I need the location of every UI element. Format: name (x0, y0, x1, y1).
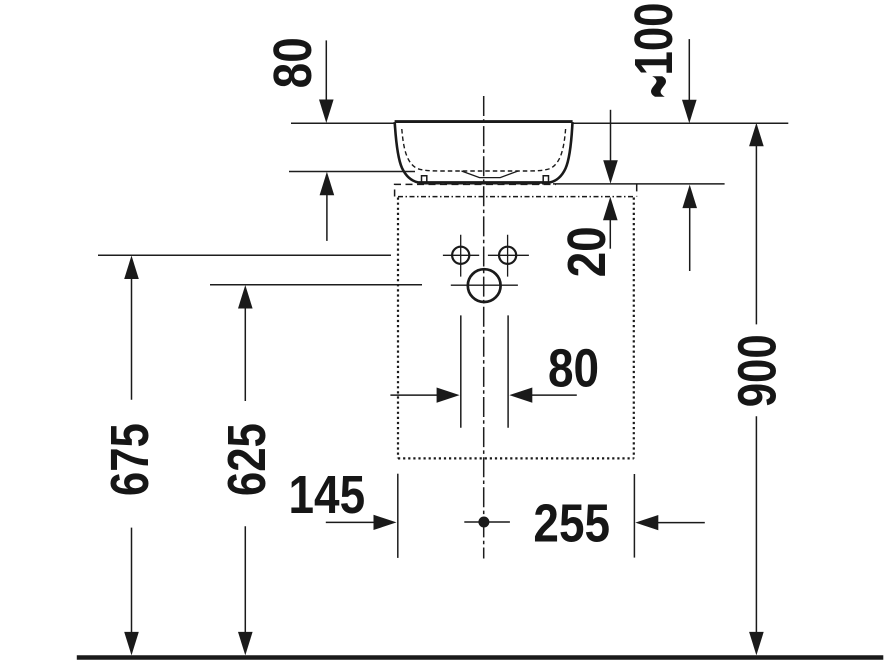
washbasin inner hidden dashed curve (402, 129, 566, 171)
dim ~100 upper arrow (682, 39, 697, 123)
dim 625 line with arrows (238, 285, 253, 655)
washbasin bottom contact line (419, 181, 550, 184)
washbasin foot right (543, 176, 548, 183)
center reference dot (464, 517, 510, 527)
extension line right (255) (633, 474, 635, 558)
basin lower reference line (80 dim) (289, 171, 415, 173)
floor line (77, 655, 884, 660)
dim 80 top-left lower arrow (320, 172, 335, 241)
rim level reference line right (573, 122, 789, 124)
dim ~100 lower arrow (682, 185, 697, 271)
dim 675 line with arrows (124, 256, 139, 656)
dim 900 line with arrows (749, 123, 764, 656)
svg-text:20: 20 (557, 226, 617, 277)
faucet spacing 80 extension lines (461, 315, 508, 427)
rim level reference line left (291, 122, 395, 124)
faucet hole right circle (488, 235, 529, 277)
faucet spacing 80 right arrow (509, 388, 577, 403)
dim 255 arrow (635, 515, 705, 530)
dim 80 top-left upper arrow (319, 40, 334, 123)
dim 625 reference line (210, 284, 422, 286)
svg-text:255: 255 (533, 493, 610, 553)
svg-text:80: 80 (548, 338, 599, 398)
washbasin drain recess trapezoid (462, 171, 519, 178)
cabinet dotted outline (398, 198, 634, 459)
washbasin bowl outer profile (395, 122, 573, 183)
countertop solid line (553, 183, 725, 185)
svg-text:675: 675 (101, 423, 160, 496)
svg-text:~: ~ (605, 75, 710, 99)
faucet hole left circle (443, 235, 479, 277)
washbasin foot left (422, 176, 427, 183)
svg-text:80: 80 (262, 37, 322, 88)
drain big circle (451, 269, 518, 302)
svg-text:145: 145 (289, 464, 366, 524)
dim 675 reference line (98, 254, 391, 256)
dim 20 upper arrow (603, 110, 618, 184)
vertical center line dash-dot (483, 96, 485, 559)
svg-text:625: 625 (218, 423, 277, 496)
svg-text:100: 100 (625, 3, 684, 76)
dim 145 arrow (326, 515, 397, 530)
extension line left (145) (397, 474, 399, 558)
dim 20 lower arrow (603, 197, 618, 249)
svg-text:900: 900 (728, 334, 787, 407)
countertop board bottom dash-dot line (398, 196, 634, 198)
countertop board dashed outline (395, 184, 637, 196)
faucet spacing 80 left arrow (390, 388, 459, 403)
